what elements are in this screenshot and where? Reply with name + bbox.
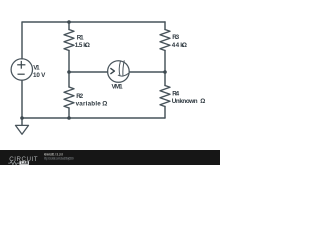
svg-text:R3: R3	[172, 34, 179, 41]
svg-text:R4: R4	[172, 90, 179, 97]
svg-text:kΩ: kΩ	[180, 42, 187, 49]
svg-text:44: 44	[172, 42, 180, 49]
svg-text:Ω: Ω	[200, 98, 205, 105]
svg-text:Ω: Ω	[102, 101, 107, 108]
svg-text:R2: R2	[76, 93, 83, 100]
svg-text:Unknown: Unknown	[172, 98, 198, 105]
svg-text:10: 10	[33, 72, 40, 79]
svg-text:LAB: LAB	[21, 161, 29, 165]
svg-text:variable: variable	[76, 101, 102, 108]
svg-text:R1: R1	[77, 35, 84, 42]
svg-text:1.5: 1.5	[75, 42, 83, 49]
svg-text:kΩ: kΩ	[83, 42, 90, 49]
svg-text:VM1: VM1	[112, 84, 124, 91]
svg-text:V1: V1	[33, 65, 40, 72]
svg-text:http://circuitlab.com/c6ue6/3b: http://circuitlab.com/c6ue6/3bqk66bb/	[44, 156, 74, 160]
